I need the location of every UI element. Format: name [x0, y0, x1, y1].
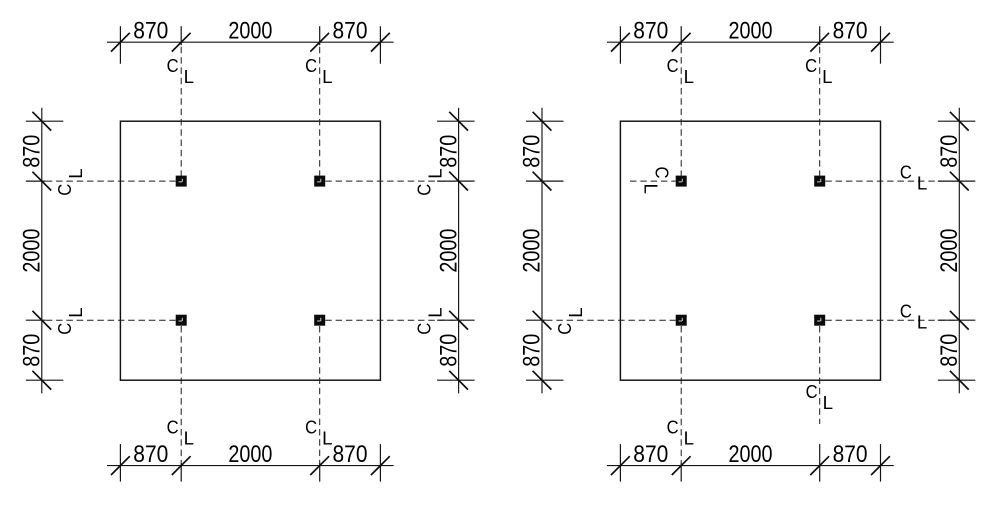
- left plan: left dim tick (row 1): [26, 172, 51, 191]
- left plan: CL symbol row1 right (rotated): [414, 168, 446, 195]
- left plan: left dimension line: [41, 108, 43, 394]
- svg-text:L: L: [640, 184, 661, 194]
- svg-text:L: L: [322, 66, 332, 87]
- svg-text:870: 870: [133, 441, 168, 468]
- right plan: centreline row1 right of cap: [825, 180, 956, 182]
- right plan: right dim text 870 (top): [936, 135, 963, 168]
- right plan: centreline grid2 below cap (short): [819, 326, 821, 424]
- right plan: left dim text 2000: [519, 229, 546, 273]
- right plan: CL symbol grid1 bottom: [667, 416, 694, 448]
- right plan: left dim text 870 (top): [519, 135, 546, 168]
- svg-text:L: L: [425, 307, 446, 317]
- svg-text:L: L: [565, 307, 586, 317]
- svg-text:870: 870: [333, 441, 368, 468]
- svg-text:C: C: [54, 184, 75, 196]
- right plan: centreline row2 right of cap: [825, 319, 956, 321]
- svg-text:L: L: [425, 168, 446, 178]
- svg-text:2000: 2000: [435, 229, 462, 273]
- right plan: column (bottom-left): [676, 315, 687, 326]
- svg-text:L: L: [917, 312, 927, 333]
- left plan: top dim tick (right edge): [371, 26, 390, 64]
- left plan: CL symbol grid2 bottom: [305, 416, 332, 448]
- svg-text:C: C: [652, 167, 673, 179]
- svg-text:L: L: [65, 307, 86, 317]
- left plan: right dim tick (bottom edge): [437, 371, 475, 390]
- right plan: bottom dim tick (left edge): [611, 444, 630, 482]
- svg-text:C: C: [305, 416, 317, 437]
- right plan: pile cap outline: [620, 121, 880, 380]
- left plan: right dim tick (row 1): [437, 172, 475, 191]
- right plan: top dim tick (left edge): [611, 26, 630, 64]
- svg-text:L: L: [917, 173, 927, 194]
- svg-text:C: C: [414, 184, 435, 196]
- left plan: left dim tick (bottom edge): [26, 371, 64, 390]
- right plan: bottom dim tick (grid 2): [810, 444, 829, 482]
- left plan: centreline row2 right of cap: [325, 319, 456, 321]
- left plan: column (top-right): [314, 176, 325, 187]
- left plan: left dim text 2000: [19, 229, 46, 273]
- right plan: bottom dim tick (right edge): [871, 444, 890, 482]
- left plan: centreline grid1 above cap: [180, 47, 182, 176]
- svg-text:870: 870: [435, 334, 462, 367]
- svg-text:2000: 2000: [936, 229, 963, 273]
- right plan: centreline row1 stub inside cap: [630, 180, 676, 182]
- left plan: top dim tick (grid 1): [172, 26, 191, 51]
- right plan: centreline row2 left of cap: [546, 319, 676, 321]
- right plan: top dim tick (grid 1): [672, 26, 691, 51]
- left plan: bottom dim tick (left edge): [111, 444, 130, 482]
- svg-text:C: C: [167, 55, 179, 76]
- svg-text:870: 870: [833, 18, 868, 45]
- left plan: CL symbol grid2 top: [305, 55, 332, 87]
- right plan: right dim text 2000: [936, 229, 963, 273]
- svg-text:870: 870: [19, 334, 46, 367]
- svg-text:870: 870: [435, 135, 462, 168]
- left plan: left dim text 870 (bottom): [19, 334, 46, 367]
- svg-text:L: L: [684, 66, 694, 87]
- right plan: CL symbol row1 right: [900, 161, 927, 193]
- svg-text:2000: 2000: [228, 441, 272, 468]
- svg-text:870: 870: [633, 18, 668, 45]
- right plan: CL symbol row2 right: [900, 300, 927, 332]
- right plan: CL symbol grid2 top: [805, 55, 832, 87]
- left plan: right dim text 870 (top): [435, 135, 462, 168]
- right plan: right dim tick (bottom edge): [938, 371, 976, 390]
- left plan: left dim text 870 (top): [19, 135, 46, 168]
- right plan: left dim tick (row 1): [526, 172, 564, 191]
- left plan: top dim tick (grid 2): [310, 26, 329, 51]
- left plan: right dim tick (top edge): [437, 112, 475, 131]
- svg-text:C: C: [305, 55, 317, 76]
- svg-text:2000: 2000: [729, 441, 773, 468]
- right plan: CL symbol row2 left (rotated): [554, 307, 586, 334]
- left plan: top dim tick (left edge): [111, 26, 130, 64]
- right plan: left dim tick (row 2): [526, 311, 551, 330]
- svg-text:870: 870: [133, 18, 168, 45]
- right plan: right dim tick (row 1): [938, 172, 976, 191]
- svg-text:870: 870: [519, 135, 546, 168]
- svg-text:2000: 2000: [729, 18, 773, 45]
- left plan: column (top-left): [176, 176, 187, 187]
- right plan: left dim text 870 (bottom): [519, 334, 546, 367]
- svg-text:2000: 2000: [228, 18, 272, 45]
- svg-text:2000: 2000: [519, 229, 546, 273]
- right plan: right dim text 870 (bottom): [936, 334, 963, 367]
- svg-text:870: 870: [19, 135, 46, 168]
- left plan: bottom dim tick (grid 1): [172, 456, 191, 481]
- svg-text:L: L: [184, 428, 194, 449]
- svg-text:C: C: [667, 416, 679, 437]
- right plan: right dimension line: [958, 108, 960, 394]
- left plan: column (bottom-left): [176, 315, 187, 326]
- left plan: right dim tick (row 2): [437, 311, 475, 330]
- left plan: bottom dim tick (grid 2): [310, 456, 329, 481]
- left plan: centreline grid1 below cap: [180, 326, 182, 463]
- svg-text:L: L: [822, 66, 832, 87]
- svg-text:C: C: [900, 161, 912, 182]
- right plan: top dimension line: [607, 41, 894, 43]
- left plan: pile cap outline: [120, 121, 380, 380]
- svg-text:2000: 2000: [19, 229, 46, 273]
- left plan: right dim text 870 (bottom): [435, 334, 462, 367]
- right plan: CL symbol row1 inside cap (rotated CW): [640, 167, 672, 194]
- left plan: centreline row1 left of cap: [46, 180, 176, 182]
- right plan: centreline grid1 below cap: [680, 326, 682, 463]
- svg-text:L: L: [322, 428, 332, 449]
- left plan: column (bottom-right): [314, 315, 325, 326]
- right plan: right dim tick (row 2): [938, 311, 976, 330]
- svg-text:870: 870: [936, 135, 963, 168]
- right plan: CL symbol grid1 top: [667, 55, 694, 87]
- left plan: CL symbol row2 left (rotated): [54, 307, 86, 334]
- right plan: bottom dim tick (grid 1): [672, 456, 691, 481]
- right plan: right dim tick (top edge): [938, 112, 976, 131]
- left plan: centreline row2 left of cap: [46, 319, 176, 321]
- svg-text:C: C: [667, 55, 679, 76]
- svg-text:L: L: [823, 392, 833, 413]
- svg-text:870: 870: [833, 441, 868, 468]
- right plan: column (top-left): [676, 176, 687, 187]
- right plan: column (bottom-right): [814, 315, 825, 326]
- svg-text:870: 870: [936, 334, 963, 367]
- right plan: top dim tick (right edge): [871, 26, 890, 64]
- left plan: CL symbol grid1 bottom: [167, 416, 194, 448]
- svg-text:L: L: [684, 428, 694, 449]
- right plan: centreline grid2 above cap: [819, 47, 821, 176]
- svg-text:C: C: [167, 416, 179, 437]
- svg-text:C: C: [414, 323, 435, 335]
- right plan: left dimension line: [541, 108, 543, 394]
- left plan: CL symbol row1 left (rotated): [54, 168, 86, 195]
- left plan: left dim tick (row 2): [26, 311, 51, 330]
- left plan: centreline grid2 above cap: [319, 47, 321, 176]
- left plan: CL symbol grid1 top: [167, 55, 194, 87]
- right plan: top dim tick (grid 2): [810, 26, 829, 51]
- svg-text:C: C: [554, 323, 575, 335]
- left plan: CL symbol row2 right (rotated): [414, 307, 446, 334]
- left plan: centreline row1 right of cap: [325, 180, 456, 182]
- right plan: CL symbol grid2 below cap: [806, 381, 833, 413]
- svg-text:C: C: [805, 55, 817, 76]
- left plan: top dimension line: [107, 41, 394, 43]
- svg-text:C: C: [900, 300, 912, 321]
- svg-text:C: C: [54, 323, 75, 335]
- svg-text:L: L: [65, 168, 86, 178]
- svg-text:870: 870: [633, 441, 668, 468]
- left plan: right dim text 2000: [435, 229, 462, 273]
- right plan: bottom dimension line: [607, 465, 894, 467]
- svg-text:C: C: [806, 381, 818, 402]
- left plan: centreline grid2 below cap: [319, 326, 321, 463]
- right plan: column (top-right): [814, 176, 825, 187]
- right plan: left dim tick (top edge): [526, 112, 564, 131]
- svg-text:870: 870: [333, 18, 368, 45]
- left plan: bottom dim tick (right edge): [371, 444, 390, 482]
- right plan: left dim tick (bottom edge): [526, 371, 564, 390]
- right plan: centreline grid1 above cap: [680, 47, 682, 176]
- svg-text:L: L: [184, 66, 194, 87]
- left plan: right dimension line: [458, 108, 460, 394]
- left plan: left dim tick (top edge): [26, 112, 64, 131]
- left plan: bottom dimension line: [107, 465, 394, 467]
- svg-text:870: 870: [519, 334, 546, 367]
